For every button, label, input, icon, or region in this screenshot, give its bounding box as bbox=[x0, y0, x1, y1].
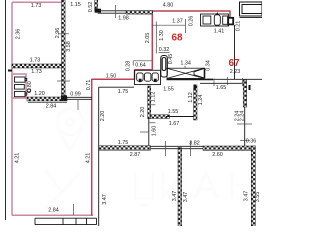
svg-text:2.05: 2.05 bbox=[145, 33, 151, 44]
wall junction blob bbox=[61, 95, 67, 101]
svg-text:1.75: 1.75 bbox=[118, 89, 129, 95]
thin black wall lines bbox=[35, 11, 262, 226]
svg-text:0.32: 0.32 bbox=[159, 47, 170, 53]
hatched wall B: 1.73 wall bbox=[12, 64, 62, 68]
svg-text:68: 68 bbox=[171, 33, 183, 44]
hatched wall: middle right 2.60 bbox=[203, 146, 255, 150]
hatched wall A: right wall of top-left room bbox=[62, 0, 66, 101]
hatched wall: right vertical 3.55 bbox=[251, 146, 255, 226]
svg-text:1.55: 1.55 bbox=[168, 109, 179, 115]
outer building boundary line bbox=[5, 0, 7, 220]
svg-text:1.98: 1.98 bbox=[118, 16, 129, 22]
thick wall line right of kitchen bbox=[167, 78, 214, 80]
hatched wall stub 0.52 bbox=[95, 0, 98, 11]
svg-text:1.73: 1.73 bbox=[31, 3, 42, 9]
svg-text:1.12: 1.12 bbox=[151, 92, 157, 103]
svg-text:2.24: 2.24 bbox=[239, 111, 245, 122]
svg-text:0.34: 0.34 bbox=[205, 60, 211, 71]
svg-text:1.15: 1.15 bbox=[70, 2, 81, 8]
hatched wall: room B right 1.12/1.24 bbox=[194, 85, 197, 120]
svg-text:0.26: 0.26 bbox=[188, 16, 194, 27]
svg-text:3.58: 3.58 bbox=[66, 41, 72, 52]
svg-text:2.87: 2.87 bbox=[130, 152, 141, 158]
svg-text:3.47: 3.47 bbox=[172, 191, 178, 202]
fridge/column bbox=[161, 56, 168, 78]
svg-text:4.21: 4.21 bbox=[85, 153, 91, 164]
svg-text:0.64: 0.64 bbox=[135, 62, 146, 68]
top hatched wall 1.98 bbox=[126, 11, 153, 15]
double wall line 0.99 bbox=[67, 97, 92, 99]
bold dimension tick 1.55/1.65 bbox=[194, 85, 196, 91]
wardrobe X-box 1.34 bbox=[167, 68, 204, 78]
svg-text:1.20: 1.20 bbox=[34, 91, 45, 97]
svg-text:1.12: 1.12 bbox=[188, 92, 194, 103]
svg-text:2.84: 2.84 bbox=[46, 104, 57, 110]
svg-text:1.60: 1.60 bbox=[152, 126, 158, 137]
hatched wall: room B left 1.12 bbox=[148, 86, 151, 119]
faint watermark bbox=[45, 109, 250, 210]
hatched wall: bathroom bottom 2.87 bbox=[99, 146, 151, 150]
svg-text:3.47: 3.47 bbox=[183, 192, 189, 203]
svg-text:3.47: 3.47 bbox=[243, 191, 249, 202]
svg-text:1.34: 1.34 bbox=[180, 61, 191, 67]
kitchen sink unit bbox=[135, 70, 161, 84]
svg-text:1.67: 1.67 bbox=[169, 121, 180, 127]
svg-text:2.84: 2.84 bbox=[48, 208, 59, 214]
svg-text:2.23: 2.23 bbox=[230, 69, 241, 75]
svg-text:1.73: 1.73 bbox=[30, 58, 41, 64]
kitchen sink unit bbox=[135, 70, 161, 84]
closet drawers bbox=[15, 77, 31, 97]
hatched wall C: 2.84 wall under closet bbox=[27, 97, 67, 101]
svg-text:1.41: 1.41 bbox=[214, 29, 225, 35]
X-box wardrobe bbox=[167, 68, 204, 78]
red apartment 68 boundary bbox=[92, 11, 231, 216]
door opening trapezoid 0.34 bbox=[194, 68, 205, 78]
apartment numbers 68 and 67 bbox=[171, 33, 240, 70]
hatched wall: top right vertical bbox=[243, 80, 247, 107]
svg-text:2.96: 2.96 bbox=[55, 28, 61, 39]
svg-text:4.80: 4.80 bbox=[163, 3, 174, 9]
svg-text:1.73: 1.73 bbox=[31, 69, 42, 75]
svg-text:3.47: 3.47 bbox=[102, 194, 108, 205]
hatched wall: room B bottom 1.55 bbox=[151, 115, 170, 119]
vertical wall A (left room right wall) bbox=[12, 0, 255, 226]
rotated dimension labels bbox=[14, 2, 260, 205]
bold dimension tick right bbox=[249, 85, 251, 90]
svg-text:2.36: 2.36 bbox=[15, 29, 21, 40]
bathroom counter with fixtures bbox=[201, 14, 229, 26]
dimension ticks and extension lines bbox=[8, 5, 252, 215]
svg-text:2.20: 2.20 bbox=[140, 107, 146, 118]
svg-text:0.45: 0.45 bbox=[168, 54, 174, 65]
svg-text:1.65: 1.65 bbox=[216, 85, 227, 91]
svg-text:3.55: 3.55 bbox=[255, 192, 261, 203]
svg-text:1.24: 1.24 bbox=[198, 95, 204, 106]
svg-text:0.52: 0.52 bbox=[88, 2, 94, 13]
svg-text:67: 67 bbox=[228, 58, 240, 69]
svg-text:4.21: 4.21 bbox=[14, 153, 20, 164]
closet shelves bbox=[15, 77, 26, 82]
black window square bbox=[228, 18, 233, 25]
hatched wall: middle vertical 3.47 bbox=[178, 148, 182, 227]
svg-text:1.55: 1.55 bbox=[163, 87, 174, 93]
pink apartment outline (left unit) bbox=[12, 2, 93, 215]
wall stub foot bbox=[95, 9, 101, 13]
svg-text:0.71: 0.71 bbox=[86, 80, 92, 91]
svg-text:1.30: 1.30 bbox=[159, 30, 165, 41]
svg-text:2.20: 2.20 bbox=[100, 111, 106, 122]
svg-text:0.99: 0.99 bbox=[70, 92, 81, 98]
svg-text:1.37: 1.37 bbox=[172, 19, 183, 25]
svg-text:0.28: 0.28 bbox=[126, 61, 132, 72]
svg-text:2.60: 2.60 bbox=[212, 152, 223, 158]
svg-text:0.21: 0.21 bbox=[235, 21, 241, 32]
fridge/column bbox=[161, 56, 168, 78]
svg-text:1.75: 1.75 bbox=[118, 140, 129, 146]
horizontal dimension labels bbox=[30, 2, 257, 214]
svg-text:1.50: 1.50 bbox=[106, 73, 117, 79]
svg-text:0.80: 0.80 bbox=[27, 81, 33, 92]
top bathroom counter bbox=[201, 13, 229, 26]
balcony box top right bbox=[240, 2, 263, 16]
svg-text:0.36: 0.36 bbox=[246, 139, 257, 145]
svg-text:3.82: 3.82 bbox=[189, 141, 200, 147]
